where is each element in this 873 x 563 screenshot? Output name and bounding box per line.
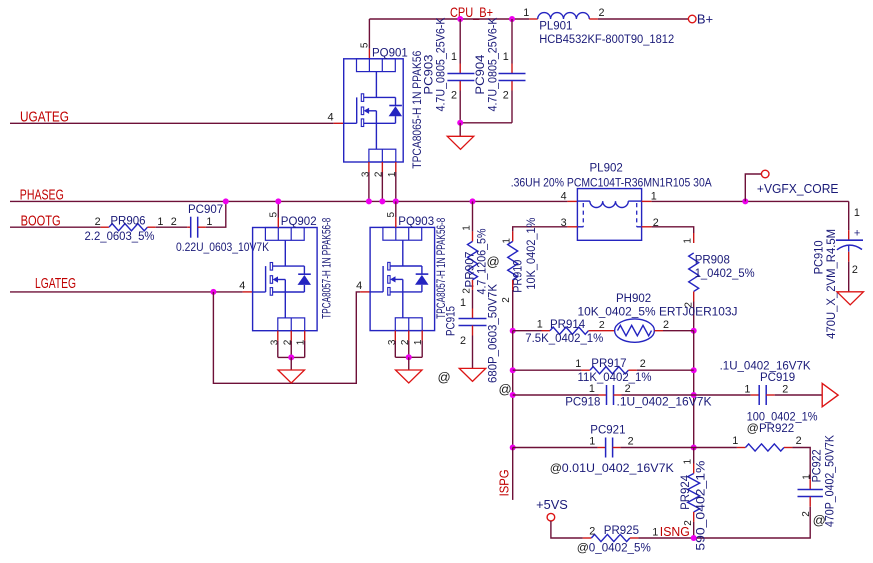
capacitor PC903	[423, 17, 474, 111]
terminal +VGFX_CORE	[757, 170, 839, 196]
resistor PR906	[85, 216, 164, 243]
junction CPU_B+/PC903	[457, 16, 463, 22]
inductor PL902	[511, 163, 712, 241]
svg-text:10K_0402_1%: 10K_0402_1%	[526, 218, 538, 290]
wire PR922 to PC922	[784, 448, 810, 490]
wire PR907 to PC915	[472, 280, 474, 319]
junction row4 left	[510, 445, 516, 451]
svg-text:PR914: PR914	[550, 319, 586, 331]
svg-text:PC915: PC915	[445, 306, 457, 336]
svg-text:ISPG: ISPG	[497, 469, 512, 496]
capacitor PC904	[475, 17, 525, 111]
svg-text:.1U_0402_16V7K: .1U_0402_16V7K	[720, 361, 811, 373]
wire CPU_B+ horizontal	[369, 18, 688, 20]
resistor PR910	[501, 218, 538, 303]
wire PQ901 pins 3,2,1 to PHASEG	[369, 162, 396, 201]
svg-text:ISNG: ISNG	[660, 524, 690, 539]
svg-text:2: 2	[599, 319, 605, 331]
svg-text:470U_X_2VM_R4.5M: 470U_X_2VM_R4.5M	[826, 229, 838, 339]
junction row2 right	[691, 367, 697, 373]
svg-text:PR910: PR910	[513, 260, 525, 293]
resistor PR907	[461, 225, 488, 295]
wire left rail rows	[512, 331, 514, 448]
svg-text:2: 2	[460, 335, 466, 347]
svg-text:PC903: PC903	[423, 55, 435, 95]
wire cap bottoms	[460, 122, 512, 124]
junction VGFX riser	[742, 198, 748, 204]
wire PR924 to row5	[693, 512, 695, 538]
svg-text:PC921: PC921	[590, 425, 625, 437]
svg-text:4: 4	[327, 112, 333, 124]
terminal B+	[688, 12, 713, 27]
wire ground stem	[459, 123, 461, 137]
wire PHASEG to VGFX corner	[642, 200, 849, 202]
svg-text:PC910: PC910	[813, 240, 825, 274]
wire row1 left	[513, 330, 550, 332]
svg-text:PQ903: PQ903	[398, 216, 434, 228]
wire PR924 rail top	[693, 448, 695, 474]
wire PHASEG	[10, 200, 577, 202]
svg-text:3: 3	[361, 171, 372, 177]
ground below PQ903	[396, 370, 423, 383]
junction row2 left	[510, 367, 516, 373]
wire ISPG rail	[512, 448, 514, 500]
junction PHASEG/PQ901 pin3	[366, 198, 372, 204]
no-stuff mark PR907	[487, 254, 500, 269]
capacitor PC910 polarized	[813, 207, 863, 339]
wire row2 right	[628, 369, 693, 371]
wire PH902 to right rail	[654, 330, 693, 332]
svg-text:PR924: PR924	[680, 474, 692, 510]
svg-text:1_0402_5%: 1_0402_5%	[695, 268, 755, 280]
svg-text:10K_0402_5% ERTJ0ER103J: 10K_0402_5% ERTJ0ER103J	[578, 307, 738, 319]
svg-text:1: 1	[589, 383, 595, 395]
wire LGATEG	[10, 291, 253, 293]
wire PR907 rail top	[472, 201, 474, 241]
svg-text:PR907: PR907	[465, 252, 477, 288]
svg-text:@: @	[487, 254, 500, 269]
junction ISNG	[691, 535, 697, 541]
svg-text:4: 4	[356, 280, 362, 292]
svg-text:2: 2	[628, 435, 634, 447]
wire PR908 to row1	[693, 292, 695, 331]
wire row3 left	[513, 394, 607, 396]
svg-text:1: 1	[157, 216, 163, 228]
capacitor PC919	[720, 361, 811, 406]
svg-text:+5VS: +5VS	[536, 498, 568, 512]
svg-text:@: @	[813, 513, 826, 528]
wire VGFX terminal riser	[745, 174, 761, 201]
svg-text:3: 3	[270, 339, 281, 345]
svg-text:PC907: PC907	[188, 204, 223, 216]
svg-text:PH902: PH902	[616, 293, 651, 305]
junction caps bottom	[457, 120, 463, 126]
wire to PC910	[848, 201, 850, 240]
resistor PR924	[680, 458, 708, 550]
junction PHASEG/PC907	[223, 198, 229, 204]
ground below PC910	[837, 292, 864, 305]
svg-text:2: 2	[625, 383, 631, 395]
svg-text:1: 1	[589, 435, 595, 447]
svg-text:PQ901: PQ901	[372, 48, 408, 60]
svg-text:2: 2	[852, 264, 858, 276]
svg-text:7.5K_0402_1%: 7.5K_0402_1%	[525, 333, 603, 345]
svg-text:@: @	[747, 421, 759, 435]
svg-text:2: 2	[796, 435, 802, 447]
wire PQ902 source pins to bus	[278, 331, 305, 358]
resistor PR925	[577, 525, 659, 555]
net label ISNG	[660, 524, 690, 539]
svg-text:.1U_0402_16V7K: .1U_0402_16V7K	[617, 396, 712, 408]
svg-text:1: 1	[652, 526, 658, 538]
svg-text:3: 3	[387, 339, 398, 345]
wire PC904 rail	[511, 19, 513, 123]
wire UGATEG	[10, 122, 344, 124]
svg-text:PR908: PR908	[695, 255, 730, 267]
svg-text:2: 2	[589, 526, 595, 538]
wire PQ901 pin5 riser	[368, 19, 370, 59]
junction LGATEG branch	[210, 289, 216, 295]
capacitor PC921	[550, 425, 674, 475]
wire row4 left	[513, 447, 606, 449]
svg-text:1: 1	[451, 51, 457, 63]
svg-text:PC919: PC919	[760, 372, 795, 384]
junction PQ903 source bus	[406, 354, 412, 360]
svg-text:1: 1	[502, 238, 513, 244]
svg-text:0.01U_0402_16V7K: 0.01U_0402_16V7K	[562, 463, 674, 475]
net label UGATEG	[20, 109, 69, 125]
net label LGATEG	[35, 276, 76, 292]
wire BOOTG to PC907	[156, 226, 191, 228]
svg-text:1: 1	[575, 358, 581, 370]
svg-text:PC918: PC918	[565, 396, 600, 408]
svg-text:TPCA8057-H 1N PPAK56-8: TPCA8057-H 1N PPAK56-8	[322, 218, 334, 319]
wire PR925 to ISNG junction	[630, 537, 694, 539]
svg-text:4: 4	[561, 190, 567, 202]
svg-text:1: 1	[503, 51, 509, 63]
terminal +5VS	[536, 498, 568, 521]
svg-text:TPCA8065-H 1N PPAK56: TPCA8065-H 1N PPAK56	[412, 51, 424, 169]
resistor PR922	[732, 411, 817, 451]
svg-text:1: 1	[206, 216, 212, 228]
wire PC915 to ground	[472, 326, 474, 369]
svg-text:1: 1	[682, 458, 693, 464]
svg-text:PR917: PR917	[591, 358, 626, 370]
junction row1 right	[691, 328, 697, 334]
junction row1 left	[510, 328, 516, 334]
net label CPU_B+	[450, 4, 493, 20]
svg-text:PR906: PR906	[110, 216, 145, 228]
resistor PR914	[525, 318, 605, 344]
wire row3 right	[694, 394, 760, 396]
ground below PC903	[447, 136, 474, 149]
svg-text:PL901: PL901	[539, 21, 572, 33]
no-stuff mark near PQ903 ground	[438, 370, 451, 385]
svg-text:590_0402_1%: 590_0402_1%	[696, 461, 708, 551]
svg-text:1: 1	[461, 225, 472, 231]
svg-text:2: 2	[598, 7, 604, 19]
ground below PC915	[459, 368, 486, 381]
resistor PR917	[575, 358, 651, 384]
svg-text:2: 2	[501, 297, 512, 303]
svg-text:PC904: PC904	[475, 54, 487, 95]
svg-text:1: 1	[460, 297, 466, 309]
svg-text:LGATEG: LGATEG	[35, 276, 76, 292]
svg-text:PL902: PL902	[590, 163, 623, 175]
svg-text:1: 1	[854, 207, 860, 219]
wire PQ903 ground stem	[408, 357, 410, 370]
svg-text:PQ902: PQ902	[281, 216, 317, 228]
junction PHASEG/PQ901 pin2	[379, 198, 385, 204]
capacitor PC915	[445, 284, 499, 383]
svg-text:+VGFX_CORE: +VGFX_CORE	[757, 182, 839, 196]
transistor PQ902	[239, 211, 333, 345]
svg-text:B+: B+	[697, 12, 713, 27]
svg-text:PR925: PR925	[604, 525, 639, 537]
svg-text:4: 4	[239, 280, 245, 292]
svg-text:2: 2	[503, 90, 509, 102]
svg-text:0_0402_5%: 0_0402_5%	[589, 543, 651, 555]
svg-text:470P_0402_50V7K: 470P_0402_50V7K	[824, 435, 836, 527]
wire row4 right	[694, 447, 746, 449]
svg-text:TPCA8057-H 1N PPAK56-8: TPCA8057-H 1N PPAK56-8	[436, 218, 448, 319]
offpage connector ISP	[822, 383, 838, 406]
junction PHASEG/PQ902 pin5	[275, 198, 281, 204]
svg-text:PR922: PR922	[759, 423, 794, 435]
junction row4 right	[691, 445, 697, 451]
capacitor PC918	[565, 383, 712, 408]
no-stuff mark row3	[499, 382, 512, 397]
svg-text:4.7U_0805_25V6-K: 4.7U_0805_25V6-K	[436, 17, 448, 111]
capacitor PC907	[171, 204, 270, 254]
svg-text:680P_0603_50V7K: 680P_0603_50V7K	[488, 284, 500, 383]
thermistor PH902	[578, 293, 738, 342]
wire LGATEG branch to PQ903 gate	[213, 292, 370, 383]
wire right rail rows	[693, 331, 695, 448]
wire row2 left	[513, 369, 590, 371]
wire PC922 to row5	[694, 497, 811, 538]
junction PHASEG/PR907	[470, 198, 476, 204]
svg-text:HCB4532KF-800T90_1812: HCB4532KF-800T90_1812	[539, 34, 674, 46]
wire PQ902 pin5 riser	[277, 201, 279, 227]
junction row3 left	[510, 392, 516, 398]
svg-text:2: 2	[171, 216, 177, 228]
capacitor PC922	[798, 435, 837, 527]
svg-text:2: 2	[451, 90, 457, 102]
svg-text:1: 1	[683, 238, 694, 244]
wire PC910 to ground	[848, 252, 850, 292]
svg-text:@: @	[499, 382, 512, 397]
wire row3 mid	[614, 394, 694, 396]
svg-text:@: @	[577, 541, 589, 555]
svg-text:2: 2	[782, 384, 788, 396]
wire PQ902 ground stem	[290, 357, 292, 370]
junction PQ902 source bus	[288, 354, 294, 360]
wire PQ903 source pins to bus	[395, 331, 422, 358]
svg-text:@: @	[438, 370, 451, 385]
transistor PQ901	[327, 42, 423, 177]
svg-text:+: +	[854, 228, 860, 240]
svg-text:1: 1	[523, 7, 529, 19]
svg-text:2: 2	[663, 319, 669, 331]
wire PL902 pin3 to PR910	[513, 227, 578, 242]
wire +5VS to row5	[551, 521, 591, 538]
svg-text:0.22U_0603_10V7K: 0.22U_0603_10V7K	[176, 242, 269, 254]
svg-text:2: 2	[640, 358, 646, 370]
svg-text:1: 1	[732, 435, 738, 447]
ground below PQ902	[278, 370, 305, 383]
svg-text:11K_0402_1%: 11K_0402_1%	[578, 372, 652, 384]
junction CPU_B+/PC904	[509, 16, 515, 22]
net label BOOTG	[21, 213, 61, 229]
wire row4 mid	[613, 447, 694, 449]
svg-text:PC922: PC922	[812, 449, 824, 482]
junction PHASEG/PQ901 pin1	[393, 198, 399, 204]
net label ISPG	[497, 469, 512, 496]
inductor PL901	[523, 7, 674, 46]
wire PR910 to row1	[512, 280, 514, 331]
svg-text:@: @	[550, 461, 562, 475]
wire PC903 rail	[459, 19, 461, 123]
transistor PQ903	[356, 211, 448, 345]
wire PL902 pin2 to PR908	[642, 227, 694, 243]
svg-text:4.7U_0805_25V6-K: 4.7U_0805_25V6-K	[487, 17, 499, 111]
svg-text:1: 1	[537, 318, 543, 330]
svg-text:.36UH 20% PCMC104T-R36MN1R105: .36UH 20% PCMC104T-R36MN1R105 30A	[511, 177, 712, 189]
resistor PR908	[683, 238, 755, 308]
svg-text:1: 1	[744, 384, 750, 396]
junction row3 right	[691, 392, 697, 398]
wire PQ903 pin5 riser	[395, 201, 397, 227]
svg-text:2.2_0603_5%: 2.2_0603_5%	[85, 231, 155, 243]
svg-text:5: 5	[359, 42, 370, 48]
wire PR914 to PH902	[589, 330, 615, 332]
no-stuff mark PC922	[813, 513, 826, 528]
wire BOOTG	[10, 226, 101, 228]
wire PC919 to connector	[766, 394, 822, 396]
net label PHASEG	[20, 188, 64, 204]
svg-text:1: 1	[651, 190, 657, 202]
wire PC907 to PHASEG	[198, 201, 226, 227]
svg-text:2: 2	[95, 216, 101, 228]
